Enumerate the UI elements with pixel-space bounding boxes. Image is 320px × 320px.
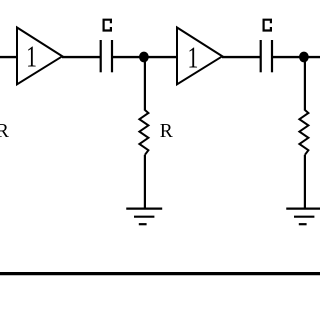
wire C2 to right edge [272, 56, 320, 58]
svg-text:R: R [0, 121, 9, 142]
ground (below R2) [286, 209, 320, 225]
capacitor C1 [101, 40, 112, 72]
wire input to buffer U1 [0, 56, 17, 58]
wire C1 to buffer U2 [112, 56, 177, 58]
capacitor C2 [261, 40, 272, 72]
ground (below R1) [126, 209, 162, 225]
wire U1 output to C1 [62, 56, 101, 58]
node B junction dot [299, 52, 309, 63]
label C (C2 value) [264, 20, 271, 31]
op-amp U1 (unity gain buffer) [17, 28, 62, 85]
wire R1 to ground [144, 155, 146, 209]
svg-text:R: R [160, 121, 173, 142]
op-amp U2 (unity gain buffer) [177, 28, 222, 85]
wire (bottom return line) [0, 272, 320, 275]
wire R2 to ground [304, 155, 306, 209]
svg-text:1: 1 [187, 40, 198, 75]
wire U2 output to C2 [222, 56, 261, 58]
wire node A down to R1 [144, 57, 146, 111]
label C (C1 value) [104, 20, 111, 31]
resistor R1 [139, 110, 148, 155]
node A junction dot [139, 52, 149, 63]
svg-text:1: 1 [26, 39, 37, 74]
resistor R2 [299, 110, 308, 155]
wire node B down to R2 [304, 57, 306, 111]
